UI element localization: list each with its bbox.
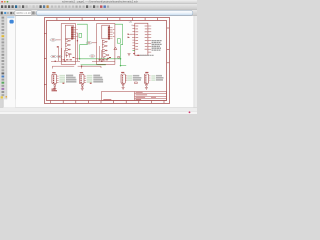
power arrow at U3 left pin 1 [128,33,130,35]
hierarchical block U2 [97,24,115,65]
wire power arrow to U3 [130,33,132,35]
J3 net label texts [133,75,142,81]
IC body fill U2 [108,27,110,40]
junction dots at U1 stub tips [76,29,79,37]
green net junction 2 [120,58,122,60]
net label oval L1 [51,55,57,58]
connector J4 [144,74,148,83]
connector J1 [52,74,57,83]
sheet border ticks [44,18,169,103]
junction dot U1 bus a [54,61,56,63]
green net lower run [81,64,106,66]
canvas [16,16,194,108]
left palette icons [1,17,8,99]
J4 pin stubs [149,76,151,80]
junction dots at U2 stub tips [112,29,115,37]
U1 bottom label specks [63,57,75,60]
ground symbol below U3 [128,54,131,56]
IC body fill U1 [71,27,73,40]
inverter gate U1D [66,52,71,56]
diode D2 below J2 [81,84,83,87]
wire U1 right edge to green junction [76,58,79,60]
title block text entries [103,92,156,100]
J2 pin squares [80,75,81,83]
junction dot U2 bus b [101,61,103,63]
red symbol below J4 [145,83,147,86]
secondary toolbar [0,10,197,16]
green net junction at U1 [79,58,81,60]
J1 pin squares [53,75,54,83]
J3 reference text [121,72,124,73]
connector J2 [79,74,84,83]
red mark left of green junction [118,56,120,58]
green net stub right of junction 3 [121,65,127,67]
net label oval U2 lower [90,55,95,58]
J3 pin squares [122,75,123,83]
U2 bottom label specks [99,57,112,60]
wire oval to U2 [92,42,97,44]
U2 pin stubs [110,27,113,38]
minimize button [4,1,6,3]
inverter gate U2C [102,49,107,52]
green net wire from U2 pin [115,24,123,66]
bottom-left popup box [3,99,15,107]
wire at U1 right [76,33,78,61]
selected tool blob [10,20,14,24]
ground symbol below J1 [53,87,56,90]
inner sub panel [7,16,15,108]
IC U3 [135,23,148,55]
sheet inner border [47,21,167,101]
small text component near bottom left border [52,89,58,92]
green highlighted component box near U2 [117,39,120,44]
green net wire U1 to U2 [80,58,121,60]
toolbar icons row 1 [1,5,109,8]
inverter gate U1C [65,48,70,51]
title bar [0,0,197,4]
left tool palette background [0,16,7,100]
J2 highlighted wire stubs [87,75,93,83]
net label oval U2 left [86,42,92,45]
status marker dot [189,111,191,113]
J1 net label texts [66,75,76,83]
selected row highlight [7,16,14,18]
wires below U1 gates [51,46,80,61]
J2 reference text [80,72,83,73]
right scrollbar [194,16,197,108]
window background [0,0,197,114]
red mark right of J3 [135,82,138,84]
diode D1 below J1 [54,84,56,87]
red label below J2 plates [90,83,92,84]
long address/progress field [36,11,192,16]
junction dot U2 bus [107,58,109,60]
schematic drawing [45,18,170,104]
U3 net name text column [152,41,162,51]
sheet outer border [45,18,170,104]
bottom scrollbar strip [0,108,197,112]
red tick left of U3 text row [137,55,139,56]
wires below U2 gates [92,46,115,61]
green highlighted component box near U1 [79,33,82,37]
red tick near U3 lower left [133,53,135,54]
red symbol below J3 [122,83,124,86]
J2 net label texts [93,75,103,83]
toolbar icons row 2 [1,12,14,15]
red label below J1 plates [63,83,65,84]
J1 highlighted wire stubs [59,75,65,83]
wire bus above connectors left [52,66,101,68]
ground symbol below J3 [122,87,125,90]
power symbol near U2 right lower [114,47,117,50]
J4 highlighted wire stubs [151,75,155,81]
main toolbar [0,4,197,10]
ground symbol below J4 [145,87,148,90]
status bar [0,112,197,115]
op-amp U2D [103,53,109,58]
J3 highlighted wire stubs [127,75,132,81]
small red junction mark left of U1 [57,46,59,47]
junction dot U1 right wire [77,40,78,41]
J4 net label texts [156,75,164,81]
oval label texts specks [52,39,94,57]
wire oval to U1 [56,39,61,41]
gray text row under U3 [140,54,154,56]
zoom level text field [15,11,32,16]
U1 pin stubs [73,27,76,38]
J1 pin stubs [57,76,59,82]
net label oval at U1 left [50,39,56,42]
J1 reference text [52,72,55,73]
junction dot U1 bus b [64,61,66,63]
green net wire from U1 pin [77,24,87,59]
U3 inner pin name text [135,26,147,49]
svg-text:100% x:4.10 y:2.05: 100% x:4.10 y:2.05 [16,11,39,15]
svg-text:schematic2 : page1 — /Users/wo: schematic2 : page1 — /Users/work/project… [62,0,139,4]
J4 reference text [145,72,148,73]
junction dot on bus [81,66,82,67]
green net junction 3 [120,65,122,67]
J2 pin stubs [84,76,86,82]
inverter gate U2A [102,40,107,43]
power arrow at U3 left pin 2 [128,37,130,39]
title block [102,92,167,101]
close button [1,1,3,3]
inverter gate U2B [102,44,107,47]
connector J3 [121,74,125,83]
zoom button [7,1,9,3]
ground symbol below J2 [81,87,84,90]
net label oval L2 [57,55,62,58]
J3 pin stubs [125,76,127,80]
U3 left pin stubs [132,26,135,49]
U3 right pin stubs [148,26,151,52]
inverter gate U1A [65,39,70,42]
green net stub near U3 [133,50,136,52]
hierarchical block U1 [61,24,75,65]
inverter gate U1B [65,43,70,46]
J4 pin squares [145,75,146,83]
